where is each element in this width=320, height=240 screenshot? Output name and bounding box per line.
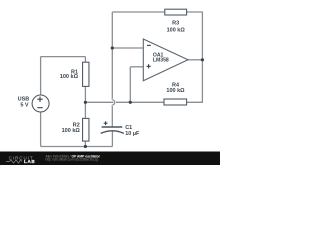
svg-text:R3: R3: [172, 20, 179, 26]
svg-text:http://circuitlab.com/c6ct289a: http://circuitlab.com/c6ct289ar3bczg: [46, 158, 99, 162]
svg-text:C1: C1: [125, 125, 132, 131]
svg-text:LM358: LM358: [153, 57, 169, 63]
svg-text:USB: USB: [18, 97, 30, 103]
svg-text:LAB: LAB: [24, 159, 35, 164]
svg-text:100 kΩ: 100 kΩ: [167, 28, 186, 34]
svg-text:100 kΩ: 100 kΩ: [166, 88, 185, 94]
svg-text:10 µF: 10 µF: [125, 131, 140, 137]
svg-text:100 kΩ: 100 kΩ: [62, 128, 81, 134]
svg-text:5 V: 5 V: [20, 103, 29, 109]
svg-text:100 kΩ: 100 kΩ: [60, 74, 79, 80]
